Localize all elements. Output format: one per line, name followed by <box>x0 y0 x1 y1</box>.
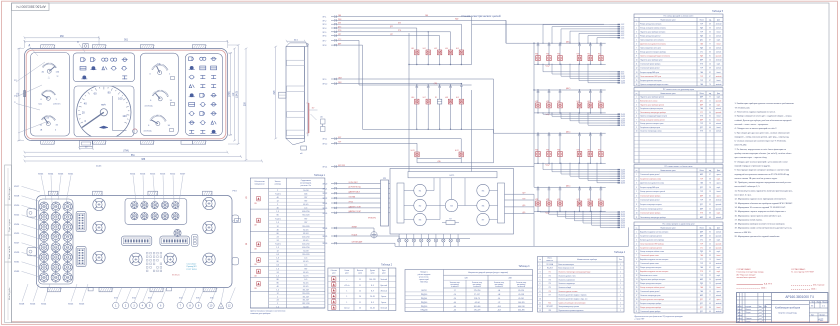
svg-text:XS07: XS07 <box>180 174 186 176</box>
mesh wire rowC rectangle <box>417 157 461 159</box>
svg-text:2. Уплотнитель годовых приборо: 2. Уплотнитель годовых приборов по габл.… <box>735 112 777 114</box>
svg-text:2004 г.: 2004 г. <box>811 289 817 291</box>
pin numbering grid <box>146 252 148 254</box>
speedometer window line <box>111 96 113 130</box>
svg-text:2: 2 <box>277 190 278 192</box>
svg-text:Контроль генератора прибора: Контроль генератора прибора <box>640 303 661 305</box>
lamp HL5x5 with contact <box>590 187 591 188</box>
mounting tab bottom 2 <box>92 141 106 145</box>
svg-text:НЛ2: НЛ2 <box>557 199 560 201</box>
svg-text:11: 11 <box>359 302 361 304</box>
svg-text:НЛ2: НЛ2 <box>535 150 538 152</box>
svg-text:20-45: 20-45 <box>96 166 102 168</box>
svg-text:ХР-26: ХР-26 <box>323 213 328 215</box>
svg-text:8-ХХ: 8-ХХ <box>621 72 624 74</box>
svg-text:-40: -40 <box>454 310 457 312</box>
svg-text:767: 767 <box>304 268 307 270</box>
svg-text:НЛ2: НЛ2 <box>557 54 560 56</box>
svg-text:XS03: XS03 <box>58 174 64 176</box>
svg-text:ГОСТ ХХХ-І: ГОСТ ХХХ-І <box>187 269 198 271</box>
rear mounting tabs top <box>48 191 58 195</box>
manufacturer logo <box>100 126 108 129</box>
svg-text:1: 1 <box>620 310 621 312</box>
bus under HL1-HL5 <box>409 64 472 66</box>
lamp socket XS03 <box>63 202 72 211</box>
right telltale icon panel <box>185 54 222 136</box>
gauge fuel level <box>54 118 56 121</box>
connector XP6 (small vertical) <box>192 235 198 247</box>
svg-text:1,5: 1,5 <box>276 222 279 224</box>
svg-text:«ДТ»: «ДТ» <box>522 193 526 195</box>
svg-text:34-ХХ: 34-ХХ <box>621 223 625 225</box>
svg-text:Масштаб: Масштаб <box>823 301 829 303</box>
svg-text:HL2: HL2 <box>423 48 426 50</box>
table 2 red icons <box>332 277 336 281</box>
svg-text:Группа: Группа <box>370 270 375 272</box>
svg-text:голуб.: голуб. <box>717 104 722 106</box>
svg-text:1: 1 <box>620 306 621 308</box>
svg-text:HL8: HL8 <box>445 97 448 99</box>
pin ХР5-1 <box>610 169 618 171</box>
svg-text:Обозн: Обозн <box>699 227 704 229</box>
pin ХР5-7 <box>610 182 618 184</box>
svg-text:24: 24 <box>277 300 279 302</box>
svg-text:80: 80 <box>277 261 279 263</box>
side view right wall <box>303 47 305 139</box>
svg-text:HL3: HL3 <box>434 48 437 50</box>
svg-text:95: 95 <box>709 204 711 206</box>
svg-text:33: 33 <box>709 31 711 33</box>
rear small tabs bottom <box>88 288 93 291</box>
gauge air pressure 2 <box>167 95 169 98</box>
svg-text:1: 1 <box>620 264 621 266</box>
svg-text:«общ»: «общ» <box>545 66 550 68</box>
fanout staircases to stacks <box>542 25 544 44</box>
svg-text:17: 17 <box>636 295 638 297</box>
svg-text:НЛ2: НЛ2 <box>546 150 549 152</box>
svg-text:Указатель температуры цепи: Указатель температуры цепи <box>640 295 660 297</box>
svg-text:цепи: цепи <box>358 273 362 275</box>
svg-text:97: 97 <box>709 299 711 301</box>
title block right cells <box>808 301 810 323</box>
indicator lamp HL5 <box>459 50 463 55</box>
svg-text:с: с <box>346 279 347 281</box>
mounting tab top 2 <box>92 45 106 49</box>
svg-text:НЛ2: НЛ2 <box>587 54 590 56</box>
svg-text:XS26: XS26 <box>30 304 36 306</box>
svg-text:Кол: Кол <box>619 259 622 261</box>
right icon row 3 <box>190 75 194 79</box>
lamp HL3x6 with contact <box>600 89 601 90</box>
svg-text:40: 40 <box>277 197 279 199</box>
svg-text:10-ХХ: 10-ХХ <box>621 76 625 78</box>
bulb holder L4 <box>130 253 142 265</box>
pin ХР4-3 <box>610 118 618 120</box>
svg-text:13: 13 <box>709 259 711 261</box>
svg-text:1: 1 <box>620 268 621 270</box>
small socket XS26 <box>141 202 148 209</box>
lamp socket XS24 <box>63 273 72 282</box>
lamp socket XS22 <box>39 273 48 282</box>
svg-text:бок 4 (обл. 5 стр.).: бок 4 (обл. 5 стр.). <box>735 195 752 197</box>
top lamp housing <box>83 44 88 49</box>
svg-text:ХР-2: ХР-2 <box>323 20 327 22</box>
indicator lamp HL8 <box>448 99 452 104</box>
svg-text:0,5: 0,5 <box>276 254 279 256</box>
svg-text:ТОР: ТОР <box>700 200 703 202</box>
svg-text:24: 24 <box>277 237 279 239</box>
svg-text:17-ХХ: 17-ХХ <box>621 118 625 120</box>
bottom small housing <box>181 141 192 145</box>
svg-text:12В: 12В <box>254 288 257 290</box>
title block doc number cell <box>770 293 772 323</box>
mounting tab bottom 3 <box>140 141 154 145</box>
svg-text:Оранж.: Оранж. <box>381 302 387 304</box>
svg-text:ПС-26.8: ПС-26.8 <box>547 268 553 270</box>
svg-text:при приёмке,: при приёмке, <box>517 284 526 286</box>
svg-text:Резерв цепи датчика контроль: Резерв цепи датчика контроль <box>640 267 661 269</box>
svg-text:3: 3 <box>540 272 541 274</box>
side dim 15deg <box>309 109 318 111</box>
svg-text:НЛ2: НЛ2 <box>546 199 549 201</box>
svg-text:94: 94 <box>709 123 711 125</box>
svg-text:40: 40 <box>709 48 711 50</box>
svg-text:ТУ 37.003.12-04.: ТУ 37.003.12-04. <box>735 107 751 109</box>
shield symbol circle <box>371 232 377 238</box>
rear left ear tabs <box>27 209 37 217</box>
svg-text:8–9: 8–9 <box>371 302 374 304</box>
svg-text:голуб.: голуб. <box>717 97 722 99</box>
svg-text:7. По болтам, закрученным на с: 7. По болтам, закрученным на счёт болты … <box>735 148 787 151</box>
svg-text:Сигнал: Сигнал <box>344 308 350 310</box>
svg-text:77: 77 <box>709 44 711 46</box>
svg-text:ХР-7: ХР-7 <box>323 40 327 42</box>
side dim height 298 <box>275 47 277 139</box>
svg-text:92: 92 <box>709 267 711 269</box>
svg-text:П4: П4 <box>549 283 551 285</box>
svg-text:Чен: Чен <box>39 104 43 106</box>
svg-text:ТОР: ТОР <box>700 243 703 245</box>
lamp HL5x6 with contact <box>600 187 601 188</box>
gauge movement П3 <box>414 213 426 225</box>
svg-text:43: 43 <box>709 247 711 249</box>
svg-text:Позиция с: Позиция с <box>420 272 428 274</box>
pin ХР4-2 <box>610 115 618 117</box>
pin ХР2-4 <box>610 30 618 32</box>
middle gauge panel <box>140 53 178 135</box>
svg-text:10. Приборка у мелких изделия: 10. Приборка у мелких изделия передачами… <box>735 181 792 184</box>
indicator lamp HL11 <box>415 152 419 157</box>
svg-text:ДЛС: ДЛС <box>700 299 703 301</box>
svg-text:Переключатель режима подсветки: Переключатель режима подсветки <box>559 310 584 312</box>
svg-text:3-ХХ: 3-ХХ <box>621 29 624 31</box>
svg-text:13: 13 <box>636 72 638 74</box>
svg-text:13-ХХ: 13-ХХ <box>621 83 625 85</box>
svg-text:10: 10 <box>636 131 638 133</box>
svg-text:19. Маркировка серии натяжной: 19. Маркировка серии натяжной приспособы… <box>735 227 793 230</box>
svg-text:периодной настроечного комплек: периодной настроечного комплекта по 37.0… <box>735 173 790 176</box>
svg-text:35-ХХ: 35-ХХ <box>621 225 625 227</box>
svg-text:НЛ2: НЛ2 <box>598 199 601 201</box>
svg-text:62–45: 62–45 <box>303 204 308 206</box>
svg-text:Обозн.: Обозн. <box>547 258 553 260</box>
svg-text:НЛ2: НЛ2 <box>587 150 590 152</box>
svg-text:Б: Б <box>246 242 248 246</box>
svg-text:Значение напр.: Значение напр. <box>472 282 483 284</box>
svg-text:хОООЧа: хОООЧа <box>145 106 154 108</box>
svg-text:схема эл.: схема эл. <box>546 260 554 262</box>
svg-text:>12 т/ч: >12 т/ч <box>344 284 350 287</box>
pin ХР3-5 <box>610 80 618 82</box>
svg-text:М.Б. Горелик: М.Б. Горелик <box>813 285 825 287</box>
svg-text:(194,5): (194,5) <box>237 91 239 99</box>
svg-text:ТОР: ТОР <box>700 23 703 25</box>
svg-text:15°: 15° <box>312 108 315 110</box>
svg-text:XS22: XS22 <box>14 215 20 217</box>
svg-text:Напряжения диодной проверки (р: Напряжения диодной проверки (ресурс в из… <box>468 271 508 274</box>
lamp HL4x3 with contact <box>559 133 560 134</box>
svg-text:Таблица 2: Таблица 2 <box>381 264 393 266</box>
svg-text:2004 г.: 2004 г. <box>761 288 767 290</box>
bottom bus group 3 <box>534 162 606 164</box>
svg-text:34: 34 <box>709 279 711 281</box>
small socket XS34 <box>172 213 179 220</box>
svg-text:Включение моста схемы: Включение моста схемы <box>640 275 657 277</box>
svg-text:НЛ2: НЛ2 <box>535 101 538 103</box>
svg-text:XS16: XS16 <box>140 174 146 176</box>
svg-text:-04: -04 <box>498 290 501 292</box>
svg-text:1: 1 <box>620 302 621 304</box>
mounting tab top 4 <box>192 45 206 49</box>
table 1 section 1 rows <box>269 191 325 193</box>
svg-text:740–320: 740–320 <box>302 293 309 295</box>
svg-text:9: 9 <box>540 295 541 297</box>
side dim top width <box>287 40 305 42</box>
svg-text:оранж: оранж <box>716 195 720 197</box>
trip reset knob <box>133 129 138 134</box>
bottom connector housing <box>79 141 92 147</box>
svg-text:78: 78 <box>709 183 711 185</box>
right sub-table C <box>634 165 723 220</box>
lamp socket XS01 <box>39 202 48 211</box>
svg-text:позиционное: позиционное <box>254 183 264 185</box>
svg-text:ХР-1: ХР-1 <box>323 17 327 19</box>
svg-text:91: 91 <box>709 56 711 58</box>
svg-text:80: 80 <box>277 279 279 281</box>
svg-text:А1: А1 <box>321 116 323 119</box>
svg-text:цепи: цепи <box>345 273 349 275</box>
svg-text:голуб.: голуб. <box>717 178 722 180</box>
table 1 telltale icon (red) <box>256 258 260 262</box>
svg-text:120: 120 <box>122 114 127 118</box>
svg-text:(794): (794) <box>123 150 129 152</box>
svg-text:97: 97 <box>709 80 711 82</box>
small socket XS28 <box>161 202 168 209</box>
svg-text:19: 19 <box>636 303 638 305</box>
svg-text:первой передачи стрелками по д: первой передачи стрелками по других. <box>735 164 772 167</box>
svg-text:100: 100 <box>118 97 123 101</box>
svg-text:38: 38 <box>709 178 711 180</box>
backlight lamp EL7 <box>442 234 444 239</box>
wire net AVR <box>345 44 363 46</box>
svg-text:код: код <box>709 227 711 229</box>
svg-text:21: 21 <box>709 35 711 37</box>
bottom bus group 2 <box>534 112 606 114</box>
svg-text:В.А. РГФ: В.А. РГФ <box>764 282 772 285</box>
telltale icons row 1 <box>81 58 84 62</box>
svg-text:22-ХХ: 22-ХХ <box>621 169 625 171</box>
svg-text:БКЛ-Я: БКЛ-Я <box>422 290 428 292</box>
svg-text:XS13: XS13 <box>160 174 166 176</box>
lamp socket XS09 <box>63 222 72 231</box>
side view ribs <box>287 60 305 65</box>
svg-text:Лампа габаритного огня цепи: Лампа габаритного огня цепи <box>640 48 661 50</box>
svg-text:Н.контр.: Н.контр. <box>737 318 743 320</box>
svg-text:62–45: 62–45 <box>303 261 308 263</box>
svg-text:5. При сборке для данных цепи: 5. При сборке для данных цепи табл., осо… <box>735 132 790 134</box>
table 1 telltale icon (red) <box>256 197 260 201</box>
svg-text:Электрокоммутатор стрелки: Электрокоммутатор стрелки <box>559 306 580 308</box>
svg-text:Резерв цепи датчика контроль: Резерв цепи датчика контроль <box>640 283 661 285</box>
svg-text:Сеч 0,5мм²: Сеч 0,5мм² <box>187 263 197 266</box>
svg-text:Указатель давления воздуха в з: Указатель давления воздуха в задн. кон <box>559 299 588 301</box>
svg-text:16: 16 <box>636 291 638 293</box>
svg-text:НЛ2: НЛ2 <box>546 101 549 103</box>
svg-text:Цвет: Цвет <box>717 227 721 229</box>
svg-text:2: 2 <box>277 303 278 305</box>
svg-text:Цвет: Цвет <box>717 19 721 21</box>
svg-text:24: 24 <box>277 240 279 242</box>
svg-text:Значение напр.: Значение напр. <box>450 282 461 284</box>
svg-text:62–45: 62–45 <box>303 272 308 274</box>
backlight lamp EL6 <box>435 234 437 239</box>
balloon triangle 11 <box>218 303 224 309</box>
svg-text:Взам. инв №: Взам. инв № <box>8 245 11 259</box>
svg-text:1: 1 <box>620 275 621 277</box>
svg-text:HL12: HL12 <box>455 150 459 152</box>
pin ХР2-1 <box>610 24 618 26</box>
pin ХР6-1 <box>610 211 618 213</box>
svg-text:-104: -104 <box>497 306 500 308</box>
svg-text:30: 30 <box>709 112 711 114</box>
svg-text:Схема электрических цепей: Схема электрических цепей <box>461 14 501 18</box>
svg-text:767: 767 <box>304 197 307 199</box>
svg-text:1: 1 <box>620 291 621 293</box>
svg-text:П1: П1 <box>549 272 551 274</box>
svg-text:ХР-6: ХР-6 <box>323 36 327 38</box>
dim bottom longest <box>25 160 263 162</box>
svg-text:НЛ2: НЛ2 <box>587 101 590 103</box>
svg-text:«Д1»: «Д1» <box>522 205 526 207</box>
bus 129.3 under HL6-HL9 <box>363 128 494 130</box>
svg-text:287–293: 287–293 <box>302 303 309 305</box>
pin ХР5-5 <box>610 177 618 179</box>
top bus group 4 <box>534 186 606 188</box>
left gauge panel <box>31 53 70 137</box>
svg-text:39: 39 <box>709 200 711 202</box>
svg-text:7 (авт): 7 (авт) <box>275 218 281 220</box>
svg-text:Наименование цепи: Наименование цепи <box>660 19 675 21</box>
svg-text:29-ХХ: 29-ХХ <box>621 212 625 214</box>
svg-text:НЛ2: НЛ2 <box>577 101 580 103</box>
table 1 frame <box>250 178 325 308</box>
svg-text:НЛ2: НЛ2 <box>577 150 580 152</box>
svg-text:Инв № дубл: Инв № дубл <box>8 287 11 300</box>
svg-text:17. Маркировка белой лампы.: 17. Маркировка белой лампы. <box>735 218 763 221</box>
wires from right connector <box>505 193 535 195</box>
svg-text:Петров: Петров <box>746 312 751 314</box>
svg-text:Таблица 3: Таблица 3 <box>518 266 530 268</box>
top-left stamp box (doc number rotated) <box>12 3 50 11</box>
svg-text:ХР-29: ХР-29 <box>323 236 328 238</box>
svg-text:НЛ2: НЛ2 <box>535 199 538 201</box>
lamp socket XS13 <box>39 243 48 252</box>
svg-text:АД2: АД2 <box>818 318 824 322</box>
svg-text:ЛЗ: ЛЗ <box>811 306 813 308</box>
svg-text:ХЛ5: ХЛ5 <box>196 298 200 300</box>
svg-text:45–201: 45–201 <box>518 298 524 300</box>
svg-text:Указатель температуры схемы: Указатель температуры схемы <box>640 131 661 133</box>
pin ХР6-4 <box>610 218 618 220</box>
svg-text:66: 66 <box>709 52 711 54</box>
table 1 section 3 rows <box>269 234 325 236</box>
svg-text:58: 58 <box>709 263 711 265</box>
lamp socket XS14 <box>51 243 60 252</box>
svg-text:Подп. и дата: Подп. и дата <box>9 218 11 232</box>
speedometer panel <box>74 86 134 137</box>
svg-text:Схема: Схема <box>344 270 349 272</box>
svg-text:XS20: XS20 <box>14 205 20 207</box>
svg-text:12: 12 <box>277 293 279 295</box>
svg-text:93: 93 <box>709 231 711 233</box>
svg-text:ХР-24: ХР-24 <box>323 203 328 205</box>
left margin stamp strip <box>5 165 12 323</box>
svg-text:86: 86 <box>709 307 711 309</box>
svg-text:ТОР: ТОР <box>700 275 703 277</box>
mounting tab bottom 1 <box>41 141 55 145</box>
svg-text:Подсветка шкал приборов контро: Подсветка шкал приборов контроль <box>640 31 665 33</box>
backlight lamp EL2 <box>405 234 407 239</box>
svg-text:100–120: 100–120 <box>369 279 376 281</box>
backlight lamp EL5 <box>428 234 430 239</box>
svg-text:XS28: XS28 <box>19 304 25 306</box>
lamp socket XS07 <box>39 222 48 231</box>
svg-text:26: 26 <box>709 187 711 189</box>
table 2 frame <box>328 268 396 311</box>
gauge air pressure 3 <box>165 120 167 123</box>
wire net PTF <box>345 31 451 33</box>
pin ХР6-3 <box>610 215 618 217</box>
svg-text:Контроль генератора контроль: Контроль генератора контроль <box>640 204 662 206</box>
svg-text:33: 33 <box>709 27 711 29</box>
svg-text:ДЛС: ДЛС <box>700 307 703 309</box>
svg-text:Лампа габаритного огня контрол: Лампа габаритного огня контроль <box>640 40 664 42</box>
svg-text:1: 1 <box>346 296 347 298</box>
svg-text:35: 35 <box>709 116 711 118</box>
svg-text:80: 80 <box>277 215 279 217</box>
svg-text:ДЛС: ДЛС <box>700 100 703 102</box>
svg-text:740–320: 740–320 <box>302 215 309 217</box>
svg-text:голуб.: голуб. <box>717 251 722 253</box>
svg-text:0–5: 0–5 <box>304 258 307 260</box>
svg-text:20. Маркировка приспособы годо: 20. Маркировка приспособы годовой пломбо… <box>735 235 781 238</box>
svg-text:Контроль дальнего света прибор: Контроль дальнего света прибора <box>640 299 664 301</box>
svg-text:штекера: штекера <box>274 183 281 185</box>
wire net STS <box>345 39 359 41</box>
svg-text:код: код <box>709 93 711 95</box>
svg-text:7 (авт): 7 (авт) <box>275 244 281 246</box>
svg-text:32-ХХ: 32-ХХ <box>621 218 625 220</box>
